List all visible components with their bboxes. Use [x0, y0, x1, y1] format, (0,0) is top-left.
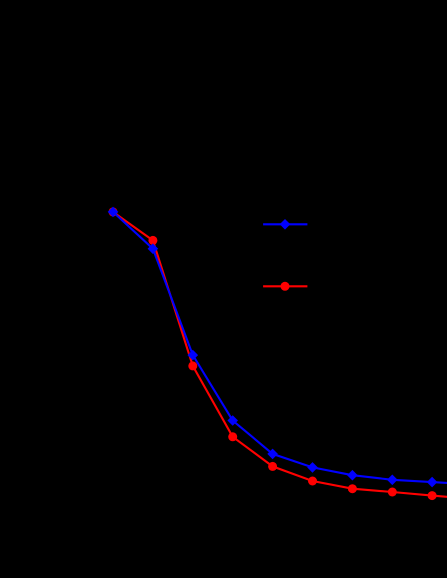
blue series markers: [108, 207, 438, 488]
legend blue marker: [280, 219, 291, 230]
legend red marker: [281, 282, 290, 291]
red series markers: [109, 207, 437, 500]
blue series line: [113, 212, 447, 483]
red series line: [113, 212, 447, 497]
legend blue sample line: [263, 223, 307, 225]
legend red sample line: [263, 285, 307, 287]
